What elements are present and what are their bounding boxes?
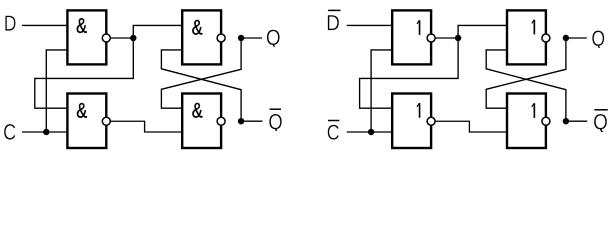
NAND gate U1 body — [67, 10, 106, 64]
inversion bubble U8 output — [542, 117, 550, 125]
label 1 of gate U8 — [532, 103, 535, 118]
wire U2 output jog to U4 pin 2 — [110, 121, 182, 132]
wire Qbar output stub — [566, 120, 587, 122]
wire feedback Qbar to U3 pin 2 — [161, 50, 241, 121]
wire U6 output jog to U8 pin 2 — [435, 121, 507, 132]
label Qbar output — [269, 114, 282, 133]
wire node Sbar to U7 pin 1 — [458, 25, 507, 38]
label Cbar input — [328, 125, 339, 140]
label Q output — [267, 30, 280, 49]
wire feedback Q to U8 pin 1 — [486, 38, 566, 108]
label Qbar output right — [594, 114, 607, 133]
junction node Qbar — [238, 118, 244, 124]
label Dbar input — [328, 15, 339, 30]
label 1 of gate U7 — [532, 20, 535, 35]
wire Cbar riser to U5 pin 2 — [371, 50, 392, 132]
wire Q output stub — [566, 37, 587, 39]
label D input — [5, 16, 15, 31]
overbar of Cbar label — [328, 120, 339, 122]
wire Dbar input stub — [347, 24, 392, 26]
NAND gate U4 body — [182, 94, 221, 149]
wire D input stub — [22, 24, 67, 26]
NAND gate U2 body — [67, 94, 106, 149]
wire feedback Q to U4 pin 1 — [161, 38, 241, 108]
overbar of Qbar label — [270, 108, 281, 110]
NOR gate U5 body — [392, 10, 431, 64]
inversion bubble U1 output — [102, 34, 110, 42]
inversion bubble U6 output — [427, 117, 435, 125]
junction node S — [130, 35, 136, 41]
wire C riser to U1 pin 2 — [46, 50, 67, 132]
label C input — [4, 124, 15, 140]
wire Q output stub — [241, 37, 262, 39]
label & of gate U1 — [77, 18, 87, 33]
junction node C — [368, 129, 374, 135]
wire Qbar output stub — [241, 120, 262, 122]
wire U1 output to node S — [110, 37, 133, 39]
label 1 of gate U6 — [417, 103, 420, 118]
NOR gate U7 body — [507, 10, 546, 64]
label 1 of gate U5 — [417, 20, 420, 35]
overbar of Qbar label right — [594, 109, 607, 111]
inversion bubble U3 output — [217, 34, 225, 42]
wire node Sbar under-route to U6 pin 1 — [360, 38, 459, 108]
wire node S under-route to U2 pin 1 — [35, 38, 134, 108]
inversion bubble U7 output — [542, 34, 550, 42]
label & of gate U3 — [192, 20, 202, 35]
wire C input stub — [22, 131, 67, 133]
overbar of Dbar label — [328, 9, 340, 11]
NOR gate U8 body — [507, 94, 546, 149]
wire U5 output to node Sbar — [435, 37, 458, 39]
label Q output right — [592, 31, 604, 50]
junction node Q — [563, 35, 569, 41]
wire node S to U3 pin 1 — [133, 25, 182, 38]
junction node Sbar — [455, 35, 461, 41]
wire feedback Qbar to U7 pin 2 — [486, 50, 566, 121]
NAND gate U3 body — [182, 10, 221, 64]
junction node C — [43, 129, 49, 135]
inversion bubble U4 output — [217, 117, 225, 125]
inversion bubble U5 output — [427, 34, 435, 42]
NOR gate U6 body — [392, 94, 431, 149]
label & of gate U4 — [192, 103, 202, 118]
junction node Q — [238, 35, 244, 41]
label & of gate U2 — [77, 103, 87, 118]
wire Cbar input stub — [347, 131, 392, 133]
inversion bubble U2 output — [102, 117, 110, 125]
junction node Qbar — [563, 118, 569, 124]
